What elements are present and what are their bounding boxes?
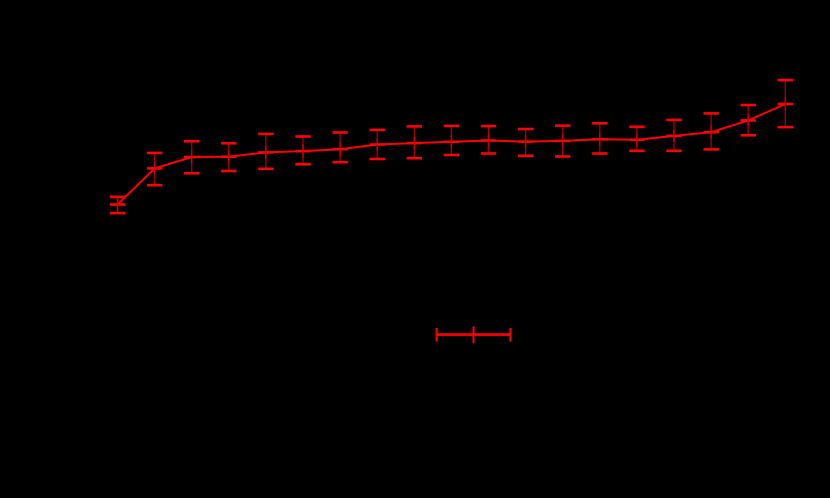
- data point 8 error bar: [370, 130, 385, 159]
- data point 18 error bar: [741, 105, 756, 135]
- data point 3 error bar: [184, 141, 199, 173]
- data point 5 error bar: [258, 134, 273, 169]
- data point 7 error bar: [332, 133, 347, 163]
- data point 10 error bar: [444, 126, 459, 155]
- data point 13 error bar: [555, 126, 570, 157]
- data point 16 error bar: [666, 120, 681, 151]
- data point 11 error bar: [481, 126, 496, 153]
- data point 1 error bar: [110, 197, 125, 213]
- data point 12 error bar: [518, 129, 533, 156]
- data point 14 error bar: [592, 123, 607, 153]
- legend key sample (error bar style): [437, 326, 511, 343]
- data point 17 error bar: [703, 113, 718, 149]
- data point 9 error bar: [407, 126, 422, 158]
- data point 19 error bar: [778, 80, 793, 127]
- data point 15 error bar: [629, 127, 644, 151]
- curve line connecting data points: [118, 104, 786, 205]
- data point 4 error bar: [221, 143, 236, 171]
- data point 6 error bar: [295, 137, 310, 165]
- data point 2 error bar: [147, 153, 162, 185]
